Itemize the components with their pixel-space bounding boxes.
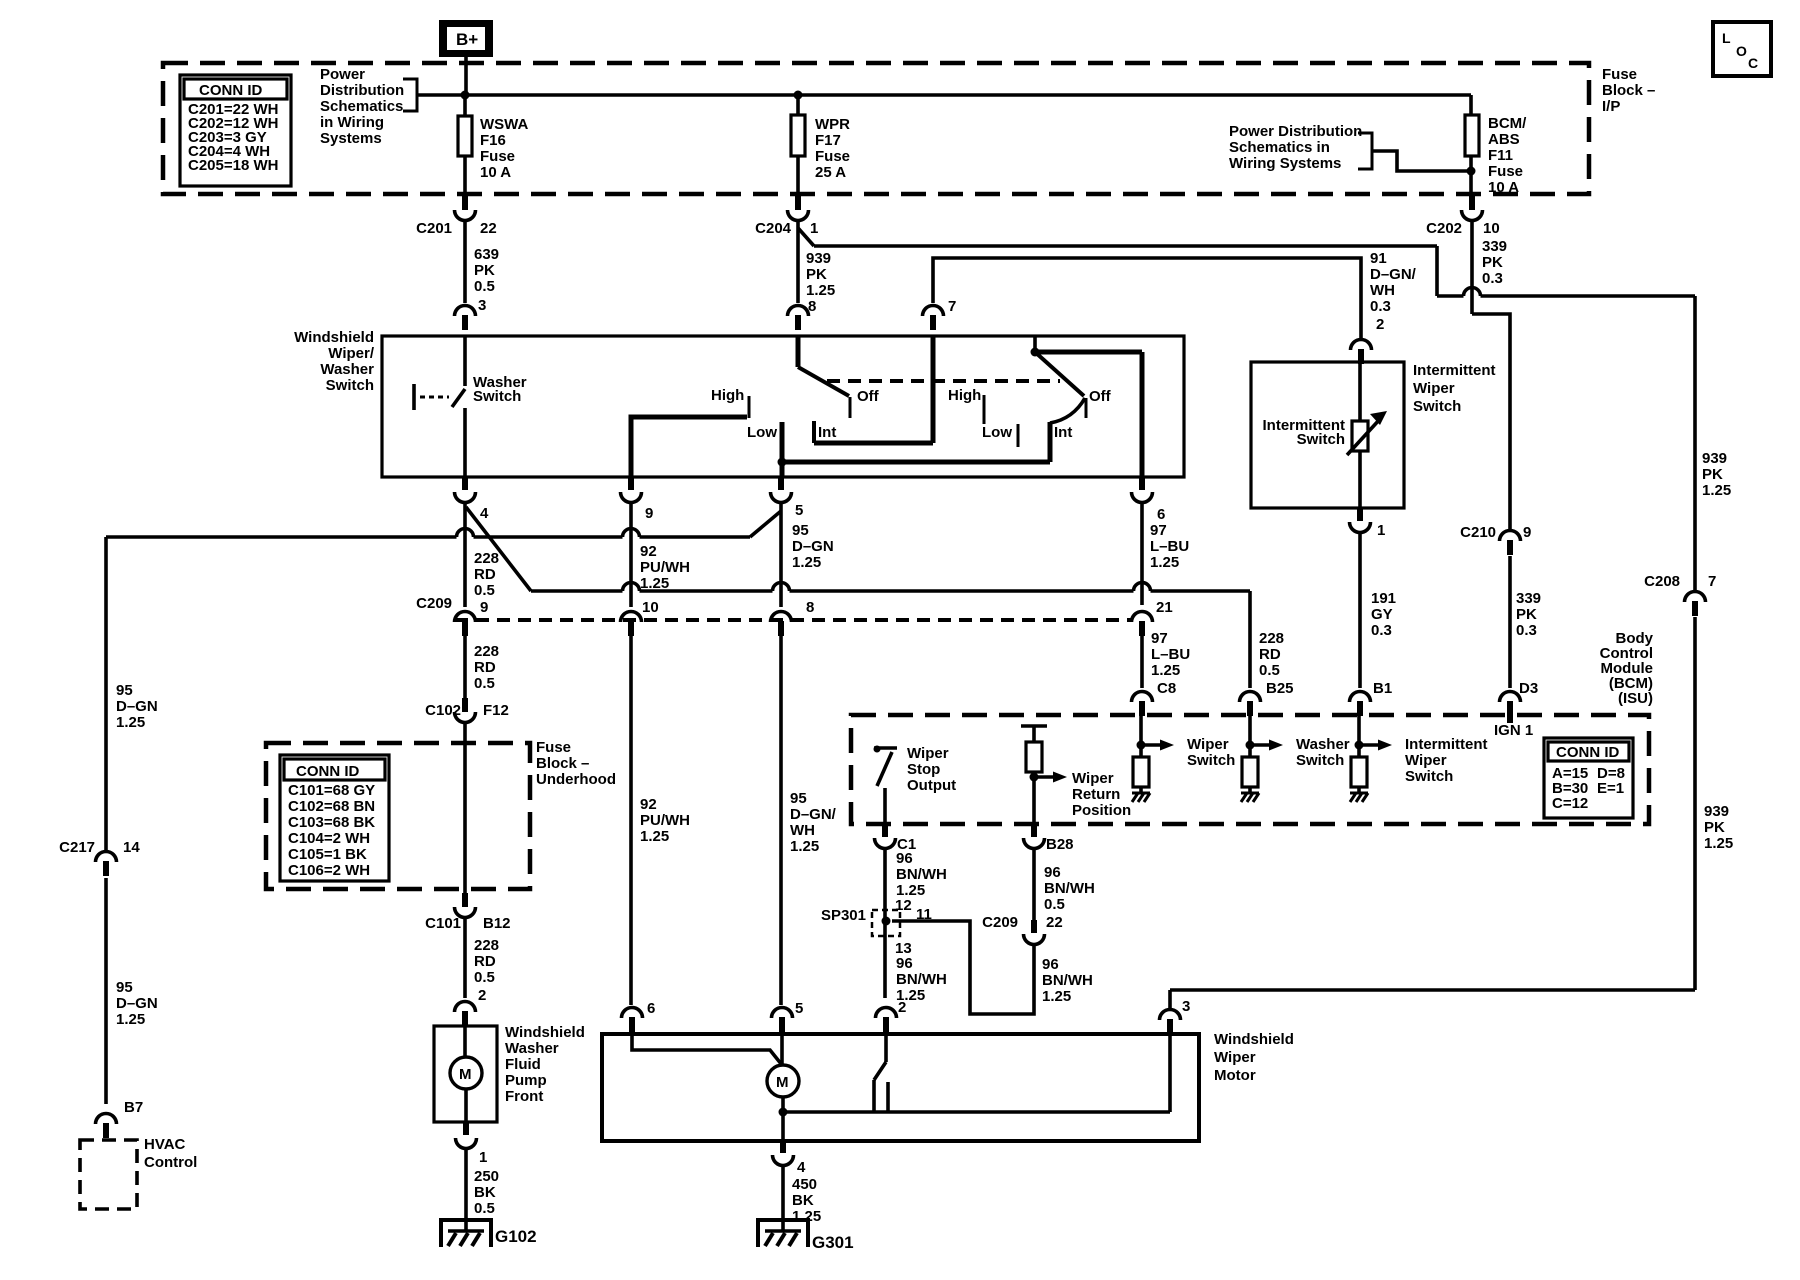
svg-text:Switch: Switch — [326, 377, 374, 394]
svg-text:Switch: Switch — [1413, 398, 1461, 415]
svg-text:7: 7 — [1708, 573, 1716, 590]
svg-text:7: 7 — [948, 298, 956, 315]
svg-text:0.5: 0.5 — [474, 969, 495, 986]
svg-text:PK: PK — [1516, 606, 1537, 623]
svg-text:HVAC: HVAC — [144, 1136, 186, 1153]
svg-text:Low: Low — [982, 424, 1012, 441]
svg-text:PK: PK — [1702, 466, 1723, 483]
svg-text:Schematics in: Schematics in — [1229, 139, 1330, 156]
svg-text:4: 4 — [480, 505, 489, 522]
svg-text:C101=68 GY: C101=68 GY — [288, 782, 375, 799]
svg-text:9: 9 — [1523, 524, 1531, 541]
svg-text:Low: Low — [747, 424, 777, 441]
svg-text:F11: F11 — [1488, 147, 1513, 164]
svg-text:C209: C209 — [416, 595, 452, 612]
svg-text:C204: C204 — [755, 220, 792, 237]
svg-text:1: 1 — [810, 220, 818, 237]
svg-text:Pump: Pump — [505, 1072, 547, 1089]
svg-text:C102=68 BN: C102=68 BN — [288, 798, 375, 815]
svg-text:Control: Control — [144, 1154, 197, 1171]
svg-text:(ISU): (ISU) — [1618, 690, 1653, 707]
svg-text:228: 228 — [474, 937, 499, 954]
svg-text:Wiper: Wiper — [1072, 770, 1114, 787]
svg-text:1.25: 1.25 — [790, 838, 819, 855]
svg-text:0.3: 0.3 — [1516, 622, 1537, 639]
svg-text:L–BU: L–BU — [1150, 538, 1189, 555]
svg-text:M: M — [776, 1074, 789, 1091]
svg-text:BN/WH: BN/WH — [1044, 880, 1095, 897]
svg-text:Wiper/: Wiper/ — [328, 345, 375, 362]
svg-text:Fluid: Fluid — [505, 1056, 541, 1073]
svg-text:Intermittent: Intermittent — [1405, 736, 1488, 753]
svg-text:339: 339 — [1482, 238, 1507, 255]
svg-text:C104=2 WH: C104=2 WH — [288, 830, 370, 847]
svg-text:1.25: 1.25 — [792, 554, 821, 571]
svg-text:D–GN: D–GN — [116, 995, 158, 1012]
svg-text:Output: Output — [907, 777, 956, 794]
svg-text:97: 97 — [1150, 522, 1167, 539]
svg-text:9: 9 — [480, 599, 488, 616]
svg-text:25 A: 25 A — [815, 164, 846, 181]
svg-text:0.5: 0.5 — [474, 675, 495, 692]
svg-text:B+: B+ — [456, 30, 478, 49]
svg-text:228: 228 — [474, 550, 499, 567]
svg-text:CONN ID: CONN ID — [296, 763, 360, 780]
svg-text:0.3: 0.3 — [1370, 298, 1391, 315]
svg-text:Washer: Washer — [505, 1040, 559, 1057]
svg-text:Wiper: Wiper — [1187, 736, 1229, 753]
svg-text:PK: PK — [1704, 819, 1725, 836]
svg-text:Schematics: Schematics — [320, 98, 403, 115]
svg-text:22: 22 — [1046, 914, 1063, 931]
svg-text:M: M — [459, 1066, 472, 1083]
svg-text:RD: RD — [474, 659, 496, 676]
svg-text:Motor: Motor — [1214, 1067, 1256, 1084]
svg-text:C210: C210 — [1460, 524, 1496, 541]
svg-text:Fuse: Fuse — [1602, 66, 1637, 83]
svg-text:PK: PK — [474, 262, 495, 279]
svg-text:Wiring Systems: Wiring Systems — [1229, 155, 1341, 172]
svg-text:RD: RD — [474, 566, 496, 583]
svg-text:Distribution: Distribution — [320, 82, 404, 99]
svg-text:Wiper: Wiper — [1405, 752, 1447, 769]
svg-text:Fuse: Fuse — [480, 148, 515, 165]
svg-text:Front: Front — [505, 1088, 543, 1105]
svg-text:0.5: 0.5 — [474, 582, 495, 599]
svg-text:C=12: C=12 — [1552, 795, 1588, 812]
svg-text:1.25: 1.25 — [640, 828, 669, 845]
svg-text:Windshield: Windshield — [505, 1024, 585, 1041]
svg-text:SP301: SP301 — [821, 907, 866, 924]
svg-text:Washer: Washer — [1296, 736, 1350, 753]
svg-text:1: 1 — [479, 1149, 487, 1166]
svg-text:WH: WH — [790, 822, 815, 839]
svg-text:Off: Off — [1089, 388, 1112, 405]
svg-text:G301: G301 — [812, 1233, 854, 1252]
svg-text:0.3: 0.3 — [1482, 270, 1503, 287]
svg-text:Washer: Washer — [320, 361, 374, 378]
svg-text:12: 12 — [895, 897, 912, 914]
svg-text:F12: F12 — [483, 702, 509, 719]
svg-text:PK: PK — [1482, 254, 1503, 271]
svg-text:IGN 1: IGN 1 — [1494, 722, 1533, 739]
svg-text:95: 95 — [790, 790, 807, 807]
svg-text:High: High — [948, 387, 981, 404]
svg-text:1.25: 1.25 — [1150, 554, 1179, 571]
svg-text:96: 96 — [896, 850, 913, 867]
svg-text:WSWA: WSWA — [480, 116, 528, 133]
svg-text:92: 92 — [640, 543, 657, 560]
svg-text:F17: F17 — [815, 132, 841, 149]
svg-text:1.25: 1.25 — [1702, 482, 1731, 499]
svg-text:Systems: Systems — [320, 130, 382, 147]
svg-text:WH: WH — [1370, 282, 1395, 299]
svg-text:Fuse: Fuse — [536, 739, 571, 756]
svg-text:O: O — [1736, 43, 1747, 59]
svg-text:C208: C208 — [1644, 573, 1680, 590]
svg-text:GY: GY — [1371, 606, 1393, 623]
svg-text:2: 2 — [1376, 316, 1384, 333]
svg-text:G102: G102 — [495, 1227, 537, 1246]
svg-text:939: 939 — [1702, 450, 1727, 467]
svg-text:High: High — [711, 387, 744, 404]
svg-text:95: 95 — [792, 522, 809, 539]
svg-text:BK: BK — [474, 1184, 496, 1201]
svg-text:10: 10 — [1483, 220, 1500, 237]
svg-text:B25: B25 — [1266, 680, 1294, 697]
svg-text:B12: B12 — [483, 915, 511, 932]
svg-text:BK: BK — [792, 1192, 814, 1209]
svg-text:C217: C217 — [59, 839, 95, 856]
svg-text:228: 228 — [474, 643, 499, 660]
svg-text:E=1: E=1 — [1597, 780, 1624, 797]
svg-text:1.25: 1.25 — [116, 714, 145, 731]
svg-text:D–GN/: D–GN/ — [1370, 266, 1417, 283]
svg-text:C: C — [1748, 55, 1758, 71]
svg-text:I/P: I/P — [1602, 98, 1620, 115]
svg-text:C103=68 BK: C103=68 BK — [288, 814, 375, 831]
svg-text:939: 939 — [1704, 803, 1729, 820]
svg-text:C209: C209 — [982, 914, 1018, 931]
svg-text:Switch: Switch — [1187, 752, 1235, 769]
svg-text:PU/WH: PU/WH — [640, 559, 690, 576]
svg-text:22: 22 — [480, 220, 497, 237]
svg-text:1.25: 1.25 — [1704, 835, 1733, 852]
svg-text:RD: RD — [474, 953, 496, 970]
svg-text:Switch: Switch — [473, 388, 521, 405]
svg-text:97: 97 — [1151, 630, 1168, 647]
svg-text:1: 1 — [1377, 522, 1385, 539]
svg-text:0.5: 0.5 — [1259, 662, 1280, 679]
svg-text:10 A: 10 A — [1488, 179, 1519, 196]
svg-text:91: 91 — [1370, 250, 1387, 267]
svg-text:PU/WH: PU/WH — [640, 812, 690, 829]
svg-text:95: 95 — [116, 979, 133, 996]
svg-text:1.25: 1.25 — [806, 282, 835, 299]
svg-text:F16: F16 — [480, 132, 506, 149]
svg-text:C8: C8 — [1157, 680, 1176, 697]
svg-text:C201: C201 — [416, 220, 452, 237]
svg-text:21: 21 — [1156, 599, 1173, 616]
svg-text:96: 96 — [1042, 956, 1059, 973]
svg-text:1.25: 1.25 — [116, 1011, 145, 1028]
svg-text:C202: C202 — [1426, 220, 1462, 237]
svg-text:5: 5 — [795, 502, 803, 519]
svg-text:3: 3 — [1182, 998, 1190, 1015]
svg-text:6: 6 — [647, 1000, 655, 1017]
svg-text:5: 5 — [795, 1000, 803, 1017]
svg-text:Wiper: Wiper — [907, 745, 949, 762]
svg-text:228: 228 — [1259, 630, 1284, 647]
svg-text:Position: Position — [1072, 802, 1131, 819]
svg-text:250: 250 — [474, 1168, 499, 1185]
svg-text:191: 191 — [1371, 590, 1396, 607]
svg-text:Off: Off — [857, 388, 880, 405]
svg-text:Stop: Stop — [907, 761, 940, 778]
svg-text:B28: B28 — [1046, 836, 1074, 853]
svg-text:92: 92 — [640, 796, 657, 813]
svg-text:B1: B1 — [1373, 680, 1392, 697]
svg-text:Underhood: Underhood — [536, 771, 616, 788]
svg-text:Wiper: Wiper — [1413, 380, 1455, 397]
svg-text:939: 939 — [806, 250, 831, 267]
svg-text:Power Distribution: Power Distribution — [1229, 123, 1362, 140]
svg-text:Block –: Block – — [536, 755, 589, 772]
svg-text:Windshield: Windshield — [294, 329, 374, 346]
svg-text:D3: D3 — [1519, 680, 1538, 697]
svg-text:C101: C101 — [425, 915, 461, 932]
svg-text:339: 339 — [1516, 590, 1541, 607]
svg-text:Fuse: Fuse — [1488, 163, 1523, 180]
svg-text:639: 639 — [474, 246, 499, 263]
svg-text:6: 6 — [1157, 506, 1165, 523]
svg-text:BN/WH: BN/WH — [1042, 972, 1093, 989]
svg-text:L: L — [1722, 30, 1731, 46]
svg-text:PK: PK — [806, 266, 827, 283]
svg-text:14: 14 — [123, 839, 140, 856]
svg-text:4: 4 — [797, 1159, 806, 1176]
svg-text:Int: Int — [818, 424, 836, 441]
svg-text:1.25: 1.25 — [1151, 662, 1180, 679]
svg-text:Switch: Switch — [1297, 431, 1345, 448]
svg-text:Fuse: Fuse — [815, 148, 850, 165]
svg-text:BCM/: BCM/ — [1488, 115, 1527, 132]
svg-text:C205=18 WH: C205=18 WH — [188, 157, 278, 174]
svg-text:1.25: 1.25 — [1042, 988, 1071, 1005]
svg-text:10 A: 10 A — [480, 164, 511, 181]
svg-text:Intermittent: Intermittent — [1413, 362, 1496, 379]
svg-text:10: 10 — [642, 599, 659, 616]
svg-text:Wiper: Wiper — [1214, 1049, 1256, 1066]
svg-text:2: 2 — [898, 999, 906, 1016]
svg-text:Switch: Switch — [1296, 752, 1344, 769]
svg-text:Windshield: Windshield — [1214, 1031, 1294, 1048]
svg-text:0.5: 0.5 — [1044, 896, 1065, 913]
svg-text:RD: RD — [1259, 646, 1281, 663]
svg-text:ABS: ABS — [1488, 131, 1520, 148]
svg-text:C102: C102 — [425, 702, 461, 719]
svg-text:0.3: 0.3 — [1371, 622, 1392, 639]
svg-text:3: 3 — [478, 297, 486, 314]
svg-text:96: 96 — [896, 955, 913, 972]
svg-text:95: 95 — [116, 682, 133, 699]
svg-text:450: 450 — [792, 1176, 817, 1193]
svg-text:Block –: Block – — [1602, 82, 1655, 99]
svg-text:8: 8 — [806, 599, 814, 616]
svg-text:in Wiring: in Wiring — [320, 114, 384, 131]
svg-text:D–GN/: D–GN/ — [790, 806, 837, 823]
svg-text:0.5: 0.5 — [474, 278, 495, 295]
svg-text:D–GN: D–GN — [116, 698, 158, 715]
svg-text:BN/WH: BN/WH — [896, 971, 947, 988]
svg-text:D–GN: D–GN — [792, 538, 834, 555]
svg-text:Power: Power — [320, 66, 365, 83]
svg-text:CONN ID: CONN ID — [1556, 744, 1620, 761]
svg-text:0.5: 0.5 — [474, 1200, 495, 1217]
svg-text:9: 9 — [645, 505, 653, 522]
svg-text:Int: Int — [1054, 424, 1072, 441]
svg-text:Switch: Switch — [1405, 768, 1453, 785]
svg-text:BN/WH: BN/WH — [896, 866, 947, 883]
svg-text:96: 96 — [1044, 864, 1061, 881]
svg-text:CONN ID: CONN ID — [199, 82, 263, 99]
svg-text:C106=2 WH: C106=2 WH — [288, 862, 370, 879]
svg-text:Return: Return — [1072, 786, 1120, 803]
svg-text:WPR: WPR — [815, 116, 850, 133]
svg-text:B7: B7 — [124, 1099, 143, 1116]
svg-text:L–BU: L–BU — [1151, 646, 1190, 663]
svg-text:C105=1 BK: C105=1 BK — [288, 846, 367, 863]
svg-text:2: 2 — [478, 987, 486, 1004]
